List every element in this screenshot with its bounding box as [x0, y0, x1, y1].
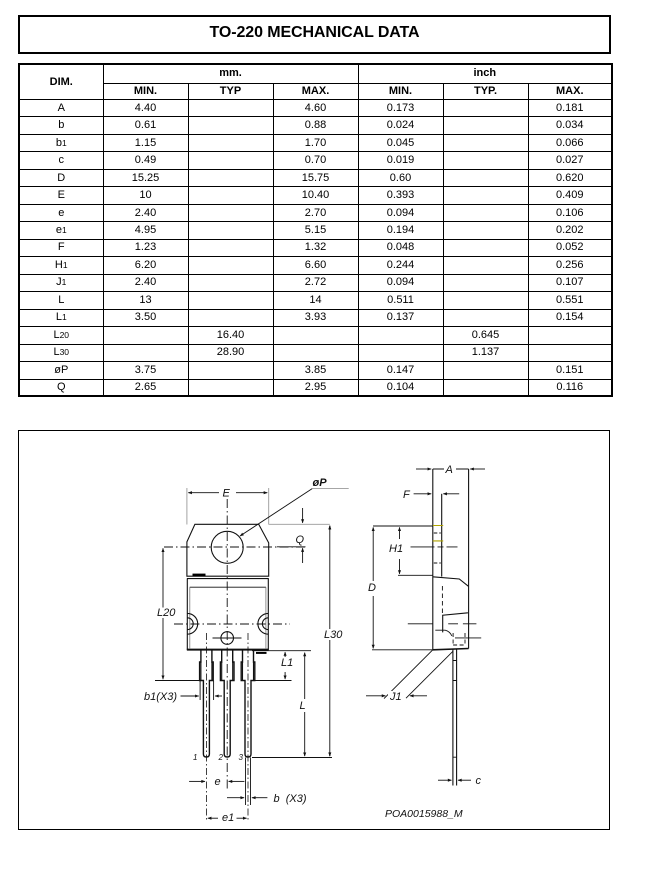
lead tip extension line: [252, 756, 332, 758]
lead 3 center line: [247, 633, 249, 822]
H1 dimension: [373, 526, 433, 575]
svg-text:b (X3): b (X3): [273, 793, 306, 805]
c dimension arrows: [438, 779, 471, 781]
front view: collar line: [189, 586, 265, 588]
front view: vertical center line: [226, 499, 228, 790]
label backgrounds: [444, 464, 456, 474]
svg-text:3: 3: [238, 753, 243, 762]
svg-text:D: D: [368, 582, 376, 594]
lead 1 center line: [205, 633, 207, 822]
front view: mounting hole: [211, 531, 243, 563]
svg-text:L20: L20: [157, 607, 176, 619]
L20 dimension: [162, 548, 164, 679]
step extension lines: [155, 679, 292, 681]
front view: right side notch inner arc: [262, 617, 268, 629]
side view: step slant: [442, 612, 467, 632]
oP leader arrow: [240, 488, 312, 535]
svg-text:b1(X3): b1(X3): [144, 691, 177, 703]
body bottom extension line: [252, 649, 311, 651]
front view: tab/body junction line: [186, 577, 268, 579]
b dimension arrows: [227, 796, 267, 798]
front view: left side notch outer arc: [187, 613, 197, 634]
lead 3 outline: [241, 649, 255, 756]
lead 1 outline: [199, 649, 213, 756]
svg-text:e: e: [214, 776, 220, 788]
front view: small bottom circle: [220, 631, 233, 644]
svg-text:E: E: [222, 487, 230, 499]
front view: body inner side lines: [189, 587, 265, 649]
side view: small line right: [455, 636, 481, 638]
side view: hole center line: [410, 545, 457, 547]
svg-text:J1: J1: [389, 691, 402, 703]
b extension lines: [245, 757, 250, 805]
A dimension: [416, 468, 485, 470]
b1 extension lines: [200, 680, 214, 700]
front view: left side notch inner arc: [187, 617, 193, 629]
side view: junction and chamfer: [432, 576, 468, 586]
lead 2 shoulder inner lines: [221, 662, 232, 681]
J1 dimension arrows: [366, 694, 427, 696]
side view: notch center line: [407, 622, 476, 624]
mechanical drawing box: [18, 430, 610, 830]
svg-text:L: L: [299, 700, 305, 712]
svg-text:A: A: [444, 464, 452, 476]
svg-text:Q: Q: [295, 534, 304, 546]
front view: black mark below body bottom right: [256, 651, 267, 653]
e1 dimension arrows: [207, 817, 246, 819]
front view: body bottom thick line: [186, 648, 268, 650]
L dimension: [303, 652, 305, 756]
side view: lead ticks: [452, 660, 456, 757]
lead 1 shoulder inner lines: [200, 662, 211, 681]
side view: tab hidden dash: [433, 533, 440, 563]
e dimension arrows: [189, 780, 244, 782]
side view: hidden tab line in body: [441, 586, 443, 614]
F dimension: [413, 492, 459, 494]
side view: hidden lead dashes: [453, 633, 465, 645]
svg-text:2: 2: [217, 753, 223, 762]
side view: back face line: [467, 469, 469, 649]
svg-text:L1: L1: [281, 657, 293, 669]
title box: [18, 15, 611, 54]
svg-text:F: F: [403, 489, 411, 501]
b1 dimension arrows: [180, 695, 222, 697]
side view: front bump: [435, 630, 452, 636]
E dimension: [186, 488, 268, 525]
svg-text:POA0015988_M: POA0015988_M: [385, 808, 463, 820]
front view: notch center line: [174, 623, 290, 625]
side view: front face line: [431, 469, 433, 650]
svg-text:e1: e1: [222, 812, 234, 824]
oP leader horizontal: [312, 487, 349, 489]
front view: black mark on junction: [192, 573, 205, 576]
dimension table: [18, 63, 613, 397]
svg-text:L30: L30: [324, 629, 343, 641]
L30 dimension: [328, 525, 330, 755]
side view: body bottom: [432, 648, 468, 649]
svg-text:øP: øP: [312, 477, 327, 489]
front view: right side notch outer arc: [257, 613, 267, 634]
front view: tab outline: [186, 524, 268, 576]
lead 2 outline: [220, 649, 234, 756]
front view: hole horizontal center line: [164, 546, 306, 548]
front view: small circle crosshair: [212, 637, 241, 639]
L1 dimension: [284, 652, 286, 679]
Q dimension: [268, 508, 329, 563]
side view: tab top yellow marks: [432, 525, 442, 540]
side view: tab back line: [440, 493, 442, 576]
svg-text:1: 1: [193, 753, 197, 762]
J1 slant lines: [384, 649, 453, 698]
svg-text:c: c: [475, 775, 481, 787]
svg-text:H1: H1: [389, 543, 403, 555]
lead 3 shoulder inner lines: [242, 662, 253, 681]
front view: body outline: [187, 578, 268, 649]
side view: lead: [452, 649, 456, 786]
D dimension: [372, 527, 433, 649]
